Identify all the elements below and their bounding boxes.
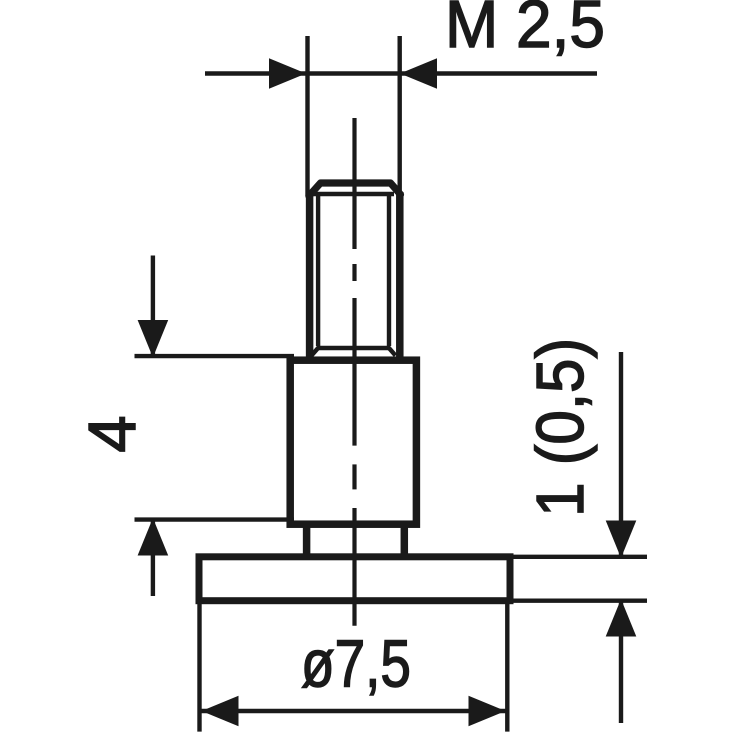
- height down arrowhead: [138, 320, 169, 358]
- thread runout line: [317, 346, 390, 350]
- thickness dimension line lower segment: [619, 601, 623, 723]
- thickness extension line bottom: [512, 599, 647, 603]
- svg-text:1 (0,5): 1 (0,5): [523, 338, 598, 517]
- stud outer left edge: [306, 192, 314, 360]
- extension line right of thread: [398, 36, 402, 194]
- svg-text:4: 4: [75, 415, 150, 452]
- thread chamfer bottom line: [312, 192, 394, 196]
- thickness extension line top: [512, 555, 647, 559]
- height extension line top: [135, 354, 295, 358]
- top right arrowhead: [400, 58, 437, 89]
- stud outer right edge: [396, 192, 404, 360]
- centre line (dash-dot axis): [352, 118, 356, 626]
- height dimension line upper segment: [151, 256, 155, 357]
- thread root line left: [316, 195, 320, 346]
- diameter extension line right: [505, 604, 509, 732]
- neck left edge: [303, 524, 311, 557]
- thickness up arrowhead: [606, 599, 637, 637]
- svg-text:ø7,5: ø7,5: [301, 627, 411, 702]
- thickness down arrowhead: [606, 521, 637, 559]
- neck right edge: [401, 524, 409, 557]
- diameter right arrowhead: [469, 696, 506, 727]
- cylinder body: [290, 360, 416, 524]
- contact disc: [199, 557, 510, 601]
- height extension line bottom: [135, 517, 295, 521]
- thread runout chamfer left: [312, 348, 319, 356]
- diameter dimension line: [201, 709, 506, 714]
- height dimension line lower segment: [151, 520, 155, 596]
- thread root line right: [387, 195, 391, 346]
- thickness dimension line upper segment: [619, 352, 623, 556]
- diameter extension line left: [197, 604, 201, 732]
- extension line left of thread: [305, 36, 309, 196]
- thread runout chamfer right: [389, 348, 396, 356]
- height up arrowhead: [138, 518, 169, 556]
- top left arrowhead: [269, 58, 306, 89]
- top dimension line: [205, 71, 597, 76]
- diameter left arrowhead: [202, 696, 239, 727]
- svg-text:M 2,5: M 2,5: [445, 0, 605, 62]
- stud top edge with chamfers: [309, 183, 401, 196]
